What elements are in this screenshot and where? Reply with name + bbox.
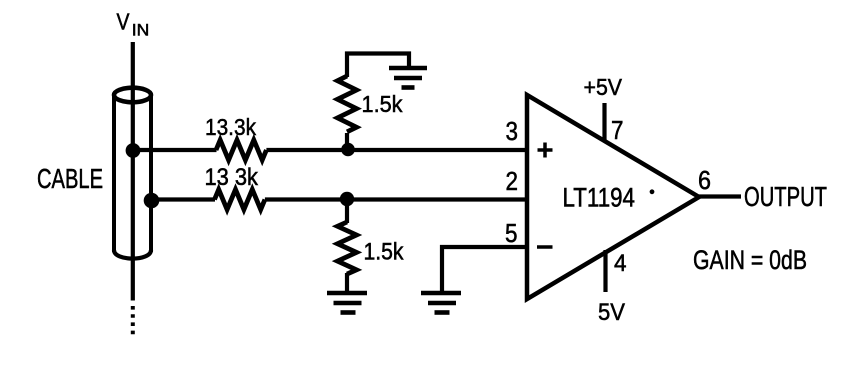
svg-text:13.3k: 13.3k: [205, 114, 256, 140]
wire R4 to ground G2: [345, 273, 349, 291]
wire node C to R3: [345, 133, 349, 150]
cable shield body: [114, 88, 151, 259]
svg-text:LT1194: LT1194: [563, 183, 636, 213]
svg-text:OUTPUT: OUTPUT: [744, 181, 827, 212]
svg-text:5V: 5V: [598, 299, 626, 326]
resistor R3 1.5k (top): [338, 76, 357, 132]
svg-text:GAIN = 0dB: GAIN = 0dB: [693, 245, 807, 275]
dotted continuation of cable: [131, 306, 135, 336]
svg-text:IN: IN: [132, 22, 150, 40]
label VIN: [117, 9, 150, 40]
resistor R1 13.3k: [216, 140, 266, 160]
resistor R4 1.5k (bottom): [338, 222, 357, 274]
svg-text:3: 3: [506, 116, 519, 146]
wire node B to R2: [151, 197, 215, 201]
ground G1: [389, 68, 427, 88]
ground G2: [327, 293, 367, 313]
wire R2 to op-amp pin 2: [265, 197, 527, 201]
svg-text:5: 5: [505, 218, 518, 248]
wire input lead / cable center conductor: [131, 42, 135, 301]
wire node D to R4: [345, 199, 349, 223]
printing artifact dot after LT1194: [650, 189, 655, 194]
wire pin 4 to 5V: [603, 250, 607, 292]
op-amp U1 LT1194 triangle: [527, 95, 699, 299]
ground G3: [421, 293, 461, 313]
svg-text:+5V: +5V: [584, 74, 623, 100]
op-amp inverting - symbol: [537, 245, 553, 249]
node C: junction dot on pin-3 wire: [341, 143, 355, 157]
op-amp noninverting + symbol: [538, 143, 553, 158]
resistor R2 13.3k: [215, 190, 265, 210]
node A: center-conductor junction dot: [126, 143, 141, 158]
svg-text:CABLE: CABLE: [37, 163, 103, 194]
svg-text:13 3k: 13 3k: [205, 164, 259, 191]
wire node A to R1: [133, 148, 217, 152]
wire R1 to op-amp pin 3: [266, 148, 527, 152]
wire pin 6 output: [699, 194, 741, 198]
svg-text:6: 6: [698, 165, 711, 195]
svg-text:2: 2: [506, 166, 519, 196]
svg-text:4: 4: [614, 250, 627, 277]
svg-text:1.5k: 1.5k: [364, 239, 405, 266]
wire R3 top to ground G1: [347, 54, 409, 78]
svg-text:1.5k: 1.5k: [362, 91, 403, 117]
node B: shield junction dot: [144, 193, 160, 209]
svg-text:7: 7: [611, 115, 624, 145]
wire pin 7 to +5V: [602, 103, 606, 141]
svg-text:V: V: [117, 9, 130, 35]
wire op-amp pin 5 to ground G3: [442, 247, 527, 291]
node D: junction dot on pin-2 wire: [340, 192, 354, 206]
